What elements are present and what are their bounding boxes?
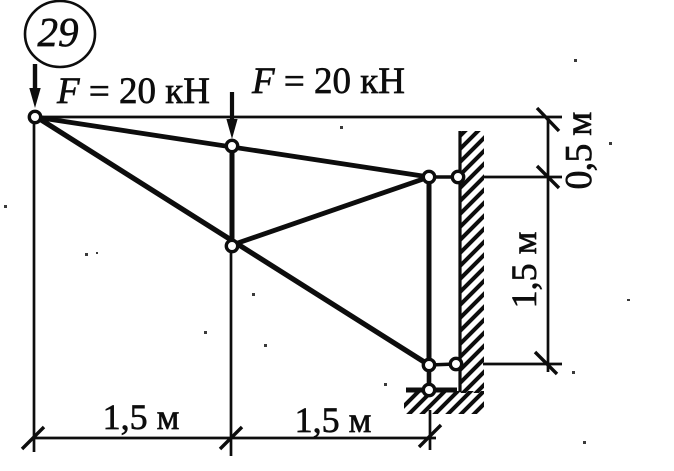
force arrow F2 [226,92,237,139]
node N5 [452,171,463,182]
dimension connector y364 [483,363,562,366]
member diagonal N3-N4 [232,177,429,245]
dimension connector y177 [483,176,562,179]
scan specks [4,59,630,444]
dimension right vertical line [547,117,550,372]
extension line right [429,410,432,450]
member right vertical N4-N6 [427,177,432,365]
member vertical N2-N3 [230,146,235,246]
node N2 [226,140,237,151]
node N7 [450,358,461,369]
svg-text:29: 29 [38,9,79,55]
svg-text:1,5 м: 1,5 м [103,397,180,437]
problem number circle 29 [25,1,95,67]
svg-text:F = 20 кН: F = 20 кН [56,71,210,112]
link N4-N5 [429,175,458,179]
tick bottom right [419,425,441,447]
ground hatching under support [390,380,521,420]
member top chord N1-N2-N4 [35,117,429,177]
svg-text:1,5 м: 1,5 м [504,232,544,309]
wall hatching [452,104,492,417]
dimension top line [35,116,562,119]
force arrow F1 [29,64,40,108]
node N6 [423,359,434,370]
tick right y177 [537,166,559,188]
dimension bottom line [33,437,436,440]
wall edge line [458,131,461,392]
tick right y364 [535,352,557,374]
extension line left [33,124,36,452]
tick bottom left [22,427,44,449]
support bar at N8 [406,388,457,393]
node N1 [29,111,40,122]
svg-text:0,5 м: 0,5 м [558,112,600,190]
member N6-N8 [427,365,432,390]
extension line middle [230,253,233,456]
tick bottom middle [220,427,242,449]
node N8 [423,384,434,395]
svg-text:F = 20 кН: F = 20 кН [251,61,405,102]
node N3 [226,240,237,251]
svg-text:1,5 м: 1,5 м [295,400,372,440]
tick top right corner [537,108,559,131]
member long diagonal N1-N3-N6 [35,116,429,365]
node N4 [423,171,434,182]
link N6-N7 [429,364,456,365]
